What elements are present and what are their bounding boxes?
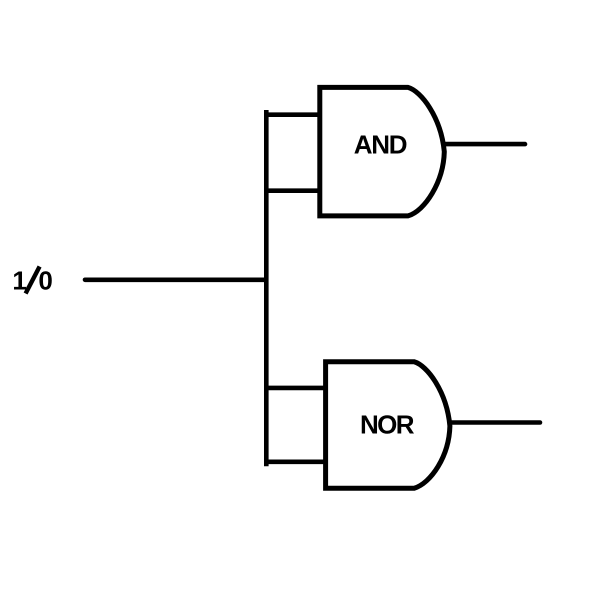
wire input from 1/0 to bus [85, 277, 266, 282]
gate NOR body [326, 362, 450, 489]
wire AND input top [264, 112, 322, 117]
node IN label 1/0 [12, 265, 52, 295]
svg-text:NOR: NOR [360, 410, 415, 440]
wire NOR output [450, 420, 540, 425]
wire vertical bus [264, 110, 269, 466]
wire NOR input bottom [264, 459, 328, 464]
wire AND input bottom [264, 188, 322, 193]
wire NOR input top [264, 386, 328, 391]
svg-text:0: 0 [38, 265, 52, 295]
gate AND body [320, 87, 445, 216]
svg-text:AND: AND [354, 129, 407, 159]
wire AND output [444, 142, 525, 147]
